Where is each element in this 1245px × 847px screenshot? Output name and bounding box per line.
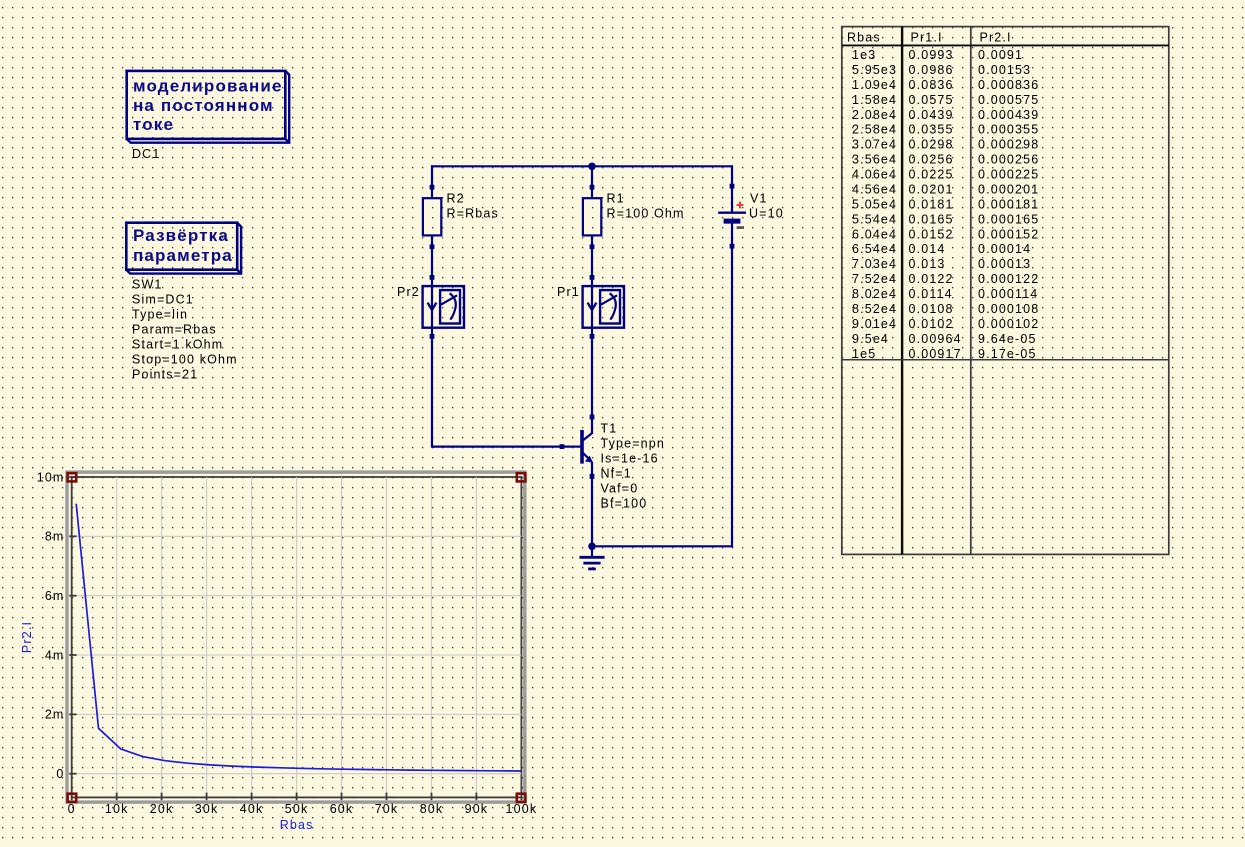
svg-text:0.0181: 0.0181 xyxy=(909,197,954,211)
y axis tick labels xyxy=(37,470,65,781)
svg-text:параметра: параметра xyxy=(133,246,233,265)
svg-text:Type=lin: Type=lin xyxy=(132,308,188,322)
svg-text:0.0439: 0.0439 xyxy=(909,108,954,122)
wire R1 top lead xyxy=(591,165,593,198)
transistor T1 (npn BJT) xyxy=(560,415,595,479)
svg-text:R=100 Ohm: R=100 Ohm xyxy=(607,207,685,221)
diagram axis ticks xyxy=(69,477,521,800)
svg-text:5.05e4: 5.05e4 xyxy=(852,197,897,211)
svg-text:0.000225: 0.000225 xyxy=(978,168,1039,182)
table header row xyxy=(847,30,1012,44)
junction node top bus / R1 collector branch xyxy=(588,163,596,171)
svg-text:4m: 4m xyxy=(45,648,65,662)
svg-text:0.0122: 0.0122 xyxy=(909,272,954,286)
svg-text:4.56e4: 4.56e4 xyxy=(852,183,897,197)
svg-text:Rbas: Rbas xyxy=(280,818,314,832)
svg-text:0.000575: 0.000575 xyxy=(978,93,1039,107)
svg-text:Rbas: Rbas xyxy=(847,30,881,44)
svg-text:0.0836: 0.0836 xyxy=(909,78,954,92)
wire V1 top lead xyxy=(731,165,733,212)
svg-text:0.0152: 0.0152 xyxy=(909,227,954,241)
svg-text:2.58e4: 2.58e4 xyxy=(852,123,897,137)
svg-text:0.00153: 0.00153 xyxy=(978,63,1031,77)
svg-text:0.000256: 0.000256 xyxy=(978,153,1039,167)
resistor R2 xyxy=(423,185,441,249)
svg-text:Bf=100: Bf=100 xyxy=(601,497,648,511)
label R1 value R=100 Ohm xyxy=(607,192,685,221)
svg-text:2m: 2m xyxy=(45,708,65,722)
svg-text:Param=Rbas: Param=Rbas xyxy=(132,323,217,337)
label T1 parameters xyxy=(601,422,665,511)
svg-text:Sim=DC1: Sim=DC1 xyxy=(132,293,194,307)
svg-text:токе: токе xyxy=(133,115,174,134)
svg-text:80k: 80k xyxy=(420,802,444,816)
svg-text:5.95e3: 5.95e3 xyxy=(852,63,897,77)
svg-text:6m: 6m xyxy=(45,589,65,603)
svg-text:8.52e4: 8.52e4 xyxy=(852,302,897,316)
voltage source V1 (DC battery) xyxy=(718,184,746,249)
diagram grid lines xyxy=(72,477,522,797)
svg-text:1.09e4: 1.09e4 xyxy=(852,78,897,92)
svg-text:0.000181: 0.000181 xyxy=(978,197,1039,211)
svg-text:20k: 20k xyxy=(150,802,174,816)
svg-text:T1: T1 xyxy=(601,422,618,436)
svg-text:10m: 10m xyxy=(37,470,65,484)
svg-text:Vaf=0: Vaf=0 xyxy=(601,482,639,496)
svg-text:1.58e4: 1.58e4 xyxy=(852,93,897,107)
svg-text:V1: V1 xyxy=(750,191,768,205)
svg-text:0.0102: 0.0102 xyxy=(909,317,954,331)
svg-text:Nf=1: Nf=1 xyxy=(601,467,632,481)
wire Pr1 to T1 collector xyxy=(591,328,593,434)
selection handles (red corner markers) xyxy=(68,473,526,802)
svg-text:0.0114: 0.0114 xyxy=(909,287,953,301)
svg-text:0.0986: 0.0986 xyxy=(909,63,954,77)
svg-text:0.000114: 0.000114 xyxy=(978,287,1038,301)
svg-text:0.000836: 0.000836 xyxy=(978,78,1039,92)
svg-text:0.0355: 0.0355 xyxy=(909,123,954,137)
svg-text:3.07e4: 3.07e4 xyxy=(852,138,897,152)
svg-text:9.5e4: 9.5e4 xyxy=(852,332,889,346)
svg-text:0.0091: 0.0091 xyxy=(978,48,1023,62)
svg-text:Stop=100 kOhm: Stop=100 kOhm xyxy=(132,353,238,367)
svg-text:7.03e4: 7.03e4 xyxy=(852,257,897,271)
results table frame (Rbas / Pr1.I / Pr2.I) xyxy=(842,27,1169,555)
svg-text:0.0165: 0.0165 xyxy=(909,212,954,226)
label V1 value U=10 xyxy=(749,191,784,220)
wire R2 to Pr2 xyxy=(431,235,433,287)
svg-text:R1: R1 xyxy=(607,192,625,206)
svg-text:Pr1.I: Pr1.I xyxy=(911,30,943,44)
svg-text:8.02e4: 8.02e4 xyxy=(852,287,897,301)
svg-text:U=10: U=10 xyxy=(749,207,784,221)
ammeter probe Pr1 xyxy=(583,275,624,339)
x axis tick labels xyxy=(68,802,538,816)
svg-text:Type=npn: Type=npn xyxy=(601,437,665,451)
svg-text:0.0575: 0.0575 xyxy=(909,93,954,107)
svg-text:0.000201: 0.000201 xyxy=(978,183,1039,197)
svg-text:9.01e4: 9.01e4 xyxy=(852,317,897,331)
wire T1 emitter to ground node xyxy=(591,462,593,547)
svg-text:0: 0 xyxy=(56,767,64,781)
svg-text:9.64e-05: 9.64e-05 xyxy=(978,332,1037,346)
svg-text:0.00013: 0.00013 xyxy=(978,257,1031,271)
svg-text:0.00014: 0.00014 xyxy=(978,242,1031,256)
curve Pr2.I vs Rbas xyxy=(76,504,521,771)
svg-text:0.0225: 0.0225 xyxy=(909,168,954,182)
wire bottom return xyxy=(592,545,733,547)
svg-text:0: 0 xyxy=(68,802,76,816)
svg-text:Pr2.I: Pr2.I xyxy=(980,30,1012,44)
svg-text:0.014: 0.014 xyxy=(909,242,946,256)
resistor R1 xyxy=(583,185,601,249)
junction node emitter / ground xyxy=(588,543,596,551)
svg-text:7.52e4: 7.52e4 xyxy=(852,272,897,286)
wire Pr2 to T1 base xyxy=(432,328,581,447)
svg-text:Is=1e-16: Is=1e-16 xyxy=(601,452,659,466)
table data rows xyxy=(852,48,1039,361)
svg-text:0.000152: 0.000152 xyxy=(978,227,1039,241)
svg-text:0.000439: 0.000439 xyxy=(978,108,1039,122)
svg-text:0.0108: 0.0108 xyxy=(909,302,954,316)
svg-text:4.06e4: 4.06e4 xyxy=(852,168,897,182)
svg-text:1e3: 1e3 xyxy=(852,48,876,62)
minus polarity mark xyxy=(737,226,744,229)
svg-text:2.08e4: 2.08e4 xyxy=(852,108,897,122)
svg-text:Развёртка: Развёртка xyxy=(133,226,229,245)
svg-text:5.54e4: 5.54e4 xyxy=(852,212,897,226)
svg-text:Start=1 kOhm: Start=1 kOhm xyxy=(132,338,223,352)
svg-text:3.56e4: 3.56e4 xyxy=(852,153,897,167)
label R2 value R=Rbas xyxy=(447,192,499,221)
svg-text:R=Rbas: R=Rbas xyxy=(447,207,499,221)
svg-text:50k: 50k xyxy=(285,802,309,816)
ammeter probe Pr2 xyxy=(423,275,464,339)
label SW1 parameters xyxy=(132,278,238,382)
svg-text:0.00917: 0.00917 xyxy=(909,347,962,361)
svg-text:90k: 90k xyxy=(465,802,489,816)
wire V1 bottom lead xyxy=(731,223,733,547)
wire R2 top lead xyxy=(431,165,433,198)
svg-text:6.04e4: 6.04e4 xyxy=(852,227,897,241)
svg-text:0.013: 0.013 xyxy=(909,257,946,271)
svg-text:моделирование: моделирование xyxy=(133,76,283,95)
svg-text:0.00964: 0.00964 xyxy=(909,332,962,346)
svg-text:R2: R2 xyxy=(447,192,465,206)
diagram frame (cartesian plot) xyxy=(67,472,525,802)
svg-text:Points=21: Points=21 xyxy=(132,368,198,382)
ground xyxy=(579,546,604,569)
wire top bus xyxy=(431,165,733,167)
svg-text:0.000102: 0.000102 xyxy=(978,317,1039,331)
svg-text:Pr1: Pr1 xyxy=(557,285,580,299)
svg-text:40k: 40k xyxy=(240,802,264,816)
svg-text:10k: 10k xyxy=(105,802,129,816)
svg-text:70k: 70k xyxy=(375,802,399,816)
svg-text:0.0298: 0.0298 xyxy=(909,138,954,152)
svg-text:0.000355: 0.000355 xyxy=(978,123,1039,137)
svg-text:SW1: SW1 xyxy=(132,278,163,292)
svg-text:0.0993: 0.0993 xyxy=(909,48,954,62)
svg-text:Pr2: Pr2 xyxy=(397,285,420,299)
svg-text:0.000298: 0.000298 xyxy=(978,138,1039,152)
svg-text:6.54e4: 6.54e4 xyxy=(852,242,897,256)
svg-text:Pr2.I: Pr2.I xyxy=(20,621,34,653)
parameter sweep box SW1 xyxy=(126,223,241,274)
svg-text:100k: 100k xyxy=(506,802,538,816)
svg-text:0.0201: 0.0201 xyxy=(909,183,954,197)
svg-text:0.000165: 0.000165 xyxy=(978,212,1039,226)
wire R1 to Pr1 xyxy=(591,235,593,287)
simulation box DC1 (DC simulation) xyxy=(127,71,290,143)
svg-text:1e5: 1e5 xyxy=(852,347,876,361)
svg-text:30k: 30k xyxy=(195,802,219,816)
svg-text:8m: 8m xyxy=(45,530,65,544)
svg-text:0.000122: 0.000122 xyxy=(978,272,1039,286)
svg-text:9.17e-05: 9.17e-05 xyxy=(978,347,1037,361)
svg-text:на постоянном: на постоянном xyxy=(133,96,274,115)
svg-text:60k: 60k xyxy=(330,802,354,816)
svg-text:DC1: DC1 xyxy=(132,147,160,161)
svg-text:0.000108: 0.000108 xyxy=(978,302,1039,316)
svg-text:0.0256: 0.0256 xyxy=(909,153,954,167)
plus polarity mark xyxy=(737,202,744,209)
